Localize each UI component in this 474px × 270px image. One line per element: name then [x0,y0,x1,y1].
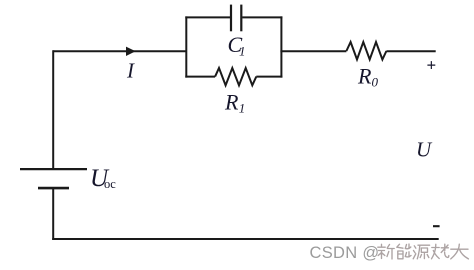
svg-text:CSDN @: CSDN @ [310,244,380,262]
wire RC box right edge [280,16,282,77]
svg-text:0: 0 [372,75,379,90]
char da [451,244,469,259]
svg-text:R: R [357,64,372,89]
battery Uoc long plate [20,168,87,170]
svg-text:1: 1 [239,101,246,116]
terminal - [433,225,440,227]
wire RC box left edge [185,16,187,77]
wire top branch left of capacitor [185,16,230,18]
wire left vertical upper [52,50,54,169]
resistor R0 [346,42,386,60]
wire bottom horizontal [52,238,439,240]
char neng [397,244,411,259]
wire left vertical lower [52,188,54,240]
capacitor C1 [231,5,241,32]
wire top-left horizontal [53,50,186,52]
current arrow [126,47,136,56]
char lao [432,244,449,259]
svg-text:R: R [224,90,239,115]
resistor R1 [215,68,256,85]
wire bottom branch right of R1 [256,76,282,78]
watermark chinese glyphs [378,244,469,259]
svg-text:1: 1 [239,44,246,59]
wire bottom branch left of R1 [185,76,215,78]
wire mid between box and R0 [280,50,346,52]
svg-text:oc: oc [104,177,116,191]
char yuan [413,245,429,259]
battery Uoc short plate [38,187,69,190]
wire right of R0 to + terminal [386,50,435,52]
char xin [378,244,394,259]
svg-text:U: U [416,138,433,162]
svg-text:I: I [126,59,135,83]
wire top branch right of capacitor [242,16,282,18]
svg-text:+: + [427,56,437,75]
